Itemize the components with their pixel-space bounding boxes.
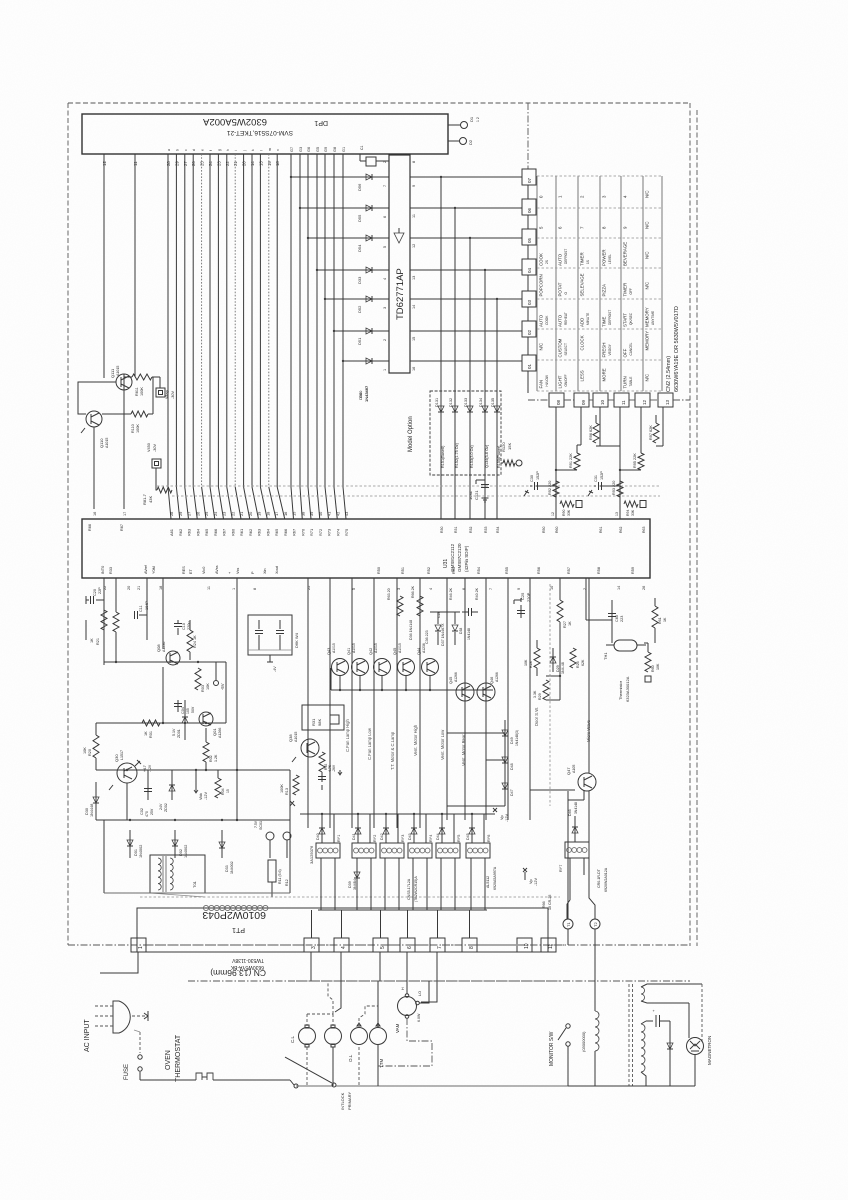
svg-text:h: h (226, 149, 230, 151)
key cell r1c2 (558, 195, 563, 198)
svg-text:R94: R94 (626, 510, 630, 516)
svg-text:7: 7 (437, 946, 443, 949)
transistor Q38 A1015 (288, 732, 319, 762)
wire PT1 pin4 down (335, 952, 341, 1012)
svg-text:(03000000): (03000000) (581, 1031, 586, 1052)
PT1 pin 3 (304, 938, 319, 952)
svg-text:6: 6 (407, 946, 413, 949)
resistor R130 (360, 145, 389, 166)
svg-text:Vlc0: Vlc0 (202, 567, 206, 574)
svg-text:C30: C30 (530, 475, 534, 482)
svg-text:FRESH: FRESH (602, 343, 607, 358)
wire to MCU pin17 (123, 374, 125, 390)
diode D40 and relay RY1 (316, 813, 341, 910)
PT1 pin 8 (462, 938, 477, 952)
svg-text:6323A30012A: 6323A30012A (625, 676, 630, 702)
svg-text:e: e (201, 149, 205, 151)
svg-text:R97 62K: R97 62K (649, 425, 653, 440)
transistor Q01 A1266 (199, 712, 222, 738)
svg-text:R66: R66 (213, 529, 218, 536)
svg-text:10K: 10K (206, 683, 210, 690)
svg-text:7.5V: 7.5V (254, 820, 258, 828)
svg-text:R74: R74 (335, 528, 340, 536)
svg-text:103Z: 103Z (468, 490, 473, 500)
key cell r1c6 (645, 190, 650, 198)
svg-text:15K: 15K (507, 443, 512, 450)
wire PT1 pin6 down (406, 952, 408, 981)
svg-text:A1015: A1015 (116, 366, 120, 376)
svg-text:T.T. Motor & C.Lamp: T.T. Motor & C.Lamp (390, 731, 395, 770)
capacitor C31 152P (588, 471, 620, 496)
resistor R04 (215, 770, 230, 798)
svg-text:R13: R13 (285, 788, 289, 795)
display connector DP1 6302W5A002A (82, 114, 448, 154)
svg-text:D1: D1 (469, 116, 474, 122)
svg-text:G6: G6 (307, 147, 311, 152)
svg-text:LESS: LESS (580, 370, 585, 381)
svg-text:A1266: A1266 (454, 672, 458, 682)
diode D46 1N4148 (568, 802, 578, 842)
svg-text:7: 7 (383, 185, 387, 187)
connector PT1 6010W2P043 (137, 905, 548, 952)
svg-text:D01: D01 (134, 849, 138, 856)
svg-text:1K: 1K (144, 731, 148, 736)
svg-text:ON/OFF: ON/OFF (564, 374, 568, 386)
svg-text:25: 25 (204, 512, 209, 516)
svg-text:28: 28 (169, 512, 174, 516)
bias parts row (387, 585, 479, 646)
svg-text:N/C: N/C (645, 282, 650, 290)
svg-text:Vp: Vp (529, 879, 533, 884)
key scan line 12 (640, 407, 642, 445)
svg-text:C02: C02 (140, 808, 144, 815)
svg-text:AL5112: AL5112 (486, 876, 490, 888)
svg-text:04: 04 (527, 267, 532, 273)
svg-text:152P: 152P (536, 471, 540, 480)
svg-text:22: 22 (230, 512, 235, 516)
wire plug to fuse (134, 1030, 140, 1053)
resistor R11 5.6ohm (268, 860, 289, 897)
terminal D1 (448, 116, 480, 128)
diode D44 and relay RY5 (436, 813, 461, 910)
svg-text:CR0-1R-DT: CR0-1R-DT (597, 868, 601, 888)
svg-text:D38: D38 (459, 628, 463, 634)
PT1 pin 1 (131, 938, 146, 952)
svg-text:10K: 10K (83, 747, 87, 754)
key scan line 10 (600, 445, 620, 447)
relay bank labels (309, 845, 497, 902)
svg-text:1K: 1K (663, 617, 667, 622)
svg-text:Vent. Motor Low: Vent. Motor Low (440, 729, 445, 760)
key cell r6c2 (558, 338, 569, 357)
svg-text:SELECT: SELECT (564, 343, 568, 355)
svg-text:g: g (217, 149, 221, 151)
diode D45 and relay RY6 (466, 813, 491, 910)
svg-text:R93 220: R93 220 (612, 481, 616, 495)
resistor R24 1K (187, 620, 197, 660)
svg-text:25: 25 (200, 161, 205, 166)
key cell r3c1 (539, 253, 550, 266)
svg-text:16: 16 (283, 512, 288, 516)
svg-text:CN2 (2.54mm): CN2 (2.54mm) (666, 356, 672, 392)
svg-text:R28: R28 (529, 661, 533, 668)
svg-text:R33: R33 (109, 567, 113, 574)
svg-text:Vp: Vp (500, 815, 504, 820)
svg-text:TW530-1138V: TW530-1138V (231, 957, 264, 963)
svg-text:D40: D40 (316, 833, 320, 840)
svg-text:CN (13.96mm): CN (13.96mm) (210, 968, 266, 978)
svg-text:DEFROST: DEFROST (564, 249, 568, 264)
PT1 pin 6 (400, 938, 415, 952)
svg-text:POPCORN: POPCORN (539, 274, 544, 296)
svg-text:N/C: N/C (539, 343, 544, 351)
key cell r4c4 (602, 284, 607, 297)
svg-text:13: 13 (665, 399, 670, 405)
key cell r6c6 (645, 331, 650, 351)
svg-text:D45: D45 (466, 833, 470, 840)
svg-text:C.Fan Lamp Low: C.Fan Lamp Low (367, 727, 372, 760)
key cell r3c4 (602, 249, 613, 266)
svg-text:17: 17 (274, 512, 279, 516)
svg-text:A1015: A1015 (352, 643, 356, 653)
connector CN2 labels (666, 306, 680, 392)
capacitor C11 104P (135, 578, 150, 640)
svg-text:43K: 43K (148, 496, 153, 503)
svg-text:T1: T1 (566, 922, 571, 927)
svg-text:1N4002: 1N4002 (184, 845, 188, 858)
svg-text:C.L: C.L (290, 1036, 295, 1044)
svg-text:G9: G9 (324, 147, 328, 152)
svg-text:C20: C20 (93, 589, 97, 596)
svg-text:6920W2A012A: 6920W2A012A (604, 867, 608, 892)
motor O.L (348, 1006, 378, 1086)
svg-text:C04: C04 (181, 707, 185, 714)
svg-text:5: 5 (352, 588, 356, 590)
svg-text:8: 8 (412, 161, 416, 163)
svg-text:j: j (243, 150, 247, 152)
key cell r2c3 (580, 226, 585, 229)
svg-text:R32: R32 (469, 527, 473, 533)
svg-text:PRIMARY: PRIMARY (347, 1092, 352, 1110)
key cell r7c5 (623, 376, 634, 388)
svg-text:R66 2K: R66 2K (411, 585, 415, 598)
diode D39 3N4B4 (348, 872, 360, 890)
diode D80 1N43467 (358, 385, 369, 402)
wire driver columns (308, 578, 530, 828)
transistor Q44 (417, 643, 439, 675)
svg-text:D42: D42 (380, 833, 384, 840)
diode D56 (357, 174, 372, 191)
svg-text:R62: R62 (619, 527, 623, 533)
diode D30 1N4448 (85, 782, 99, 820)
svg-text:R53: R53 (452, 567, 456, 574)
fold line (188, 980, 690, 982)
svg-text:G3: G3 (299, 147, 303, 152)
resistor R94 33K (624, 501, 646, 517)
svg-text:R64: R64 (265, 528, 270, 536)
key cell r2c2 (558, 226, 563, 229)
svg-text:L1517: L1517 (120, 750, 124, 760)
svg-text:(42Pin SDIP): (42Pin SDIP) (464, 545, 469, 572)
svg-text:PT1: PT1 (232, 926, 245, 933)
key matrix connector CN2 (522, 103, 536, 393)
svg-text:T2: T2 (593, 922, 598, 927)
model option diode D134 (479, 391, 489, 519)
svg-text:R63: R63 (642, 527, 646, 533)
svg-text:-30V: -30V (153, 444, 157, 452)
svg-text:R62: R62 (248, 529, 253, 536)
emitter rail (331, 668, 493, 691)
PT1 pin 5 (373, 938, 388, 952)
transistor Q46 A1266 (477, 672, 499, 701)
key cell r2c6 (645, 221, 650, 229)
svg-text:Q30: Q30 (114, 754, 119, 762)
key matrix grid (537, 176, 662, 391)
motor C.L b (307, 981, 342, 1086)
diode D47 (447, 783, 514, 806)
svg-text:12: 12 (642, 399, 647, 405)
svg-text:n: n (276, 149, 280, 151)
svg-text:1N4-48: 1N4-48 (561, 662, 565, 674)
svg-text:8: 8 (253, 588, 257, 590)
svg-text:R50: R50 (542, 527, 546, 533)
svg-text:d: d (192, 149, 196, 151)
magnetron bottom wire (568, 1085, 695, 1087)
svg-text:TTM: TTM (379, 1059, 384, 1068)
svg-text:11: 11 (207, 586, 211, 590)
svg-text:R59: R59 (631, 567, 635, 574)
svg-text:03: 03 (527, 299, 532, 305)
svg-text:R54: R54 (477, 567, 481, 574)
svg-text:19: 19 (267, 161, 272, 166)
key cell r7c4 (602, 368, 607, 381)
key cell r1c1 (539, 195, 544, 198)
svg-text:D37 1N4467X: D37 1N4467X (441, 623, 445, 646)
svg-text:FUSE: FUSE (124, 1064, 130, 1080)
svg-text:LO: LO (418, 991, 422, 996)
svg-text:Q08: Q08 (156, 644, 161, 652)
svg-text:1N4148: 1N4148 (467, 628, 471, 640)
svg-text:Q46: Q46 (490, 677, 494, 684)
svg-text:-12V: -12V (505, 814, 509, 822)
svg-text:D29: D29 (556, 665, 560, 672)
key matrix connector CN2 bottom row (528, 393, 690, 407)
svg-text:R67: R67 (292, 529, 297, 536)
svg-text:R33: R33 (484, 527, 488, 533)
svg-text:12: 12 (551, 512, 555, 516)
capacitor C20 22P (86, 578, 104, 648)
transistor Q110 A1015 (81, 411, 109, 448)
svg-text:SC01: SC01 (259, 821, 263, 830)
svg-text:C60: C60 (615, 615, 619, 622)
svg-text:2: 2 (383, 339, 387, 341)
magnetron (687, 1036, 713, 1086)
svg-text:A1015: A1015 (374, 643, 378, 653)
rectifier diode D01 1N4002 (127, 830, 143, 858)
key cell r3c6 (645, 251, 650, 259)
key cell r2c1 (539, 226, 544, 229)
svg-text:470: 470 (145, 811, 149, 817)
capacitor C10 220u (163, 578, 191, 640)
svg-text:1 2: 1 2 (476, 117, 480, 122)
svg-text:R70: R70 (300, 528, 305, 536)
svg-text:RY2: RY2 (373, 835, 377, 842)
diode D50 label (358, 385, 369, 402)
diode D33 1N4002 (219, 830, 234, 874)
svg-text:TIMER: TIMER (580, 252, 585, 266)
svg-text:POWER: POWER (602, 249, 607, 266)
svg-text:RES: RES (182, 566, 186, 574)
svg-text:16: 16 (412, 367, 416, 371)
transistor Q43 (327, 643, 349, 675)
diode D41 and relay RY2 (352, 813, 377, 910)
DC-DC converter block D6KW (248, 615, 299, 672)
svg-text:Xout: Xout (275, 565, 279, 574)
diode D54 (357, 235, 372, 252)
svg-text:RY4: RY4 (429, 835, 433, 842)
svg-text:SELEVAGE: SELEVAGE (580, 273, 585, 296)
svg-text:TH1: TH1 (603, 652, 608, 660)
svg-text:105: 105 (186, 708, 190, 714)
resistor network RN31 98K (302, 705, 344, 730)
svg-text:b: b (175, 149, 179, 151)
svg-text:Q134(3-6 Oz): Q134(3-6 Oz) (485, 444, 489, 468)
svg-text:R63 20: R63 20 (387, 588, 391, 600)
key cell r1c3 (580, 195, 585, 198)
model option diode D131 (435, 391, 445, 519)
svg-text:27: 27 (187, 512, 192, 516)
wires DP1 grid pins to driver (290, 176, 389, 362)
svg-text:C11: C11 (139, 605, 143, 612)
svg-text:Model Option: Model Option (408, 416, 414, 452)
svg-text:QK/SEC: QK/SEC (629, 312, 633, 325)
svg-text:R29: R29 (538, 693, 542, 700)
transistor Q111 A1015 (110, 366, 132, 390)
PT1 pin 11 (541, 938, 556, 952)
resistor R29 3.3K (533, 680, 549, 700)
svg-text:10: 10 (600, 399, 605, 405)
relay supply rail (300, 808, 509, 822)
OVEN THERMOSTAT label (165, 1034, 182, 1082)
svg-text:11: 11 (412, 214, 416, 218)
svg-text:R46 2K: R46 2K (449, 587, 453, 600)
key cell r2c4 (602, 226, 607, 229)
svg-text:3.3K: 3.3K (533, 690, 537, 698)
key cell r3c5 (623, 242, 628, 266)
supply Vp -12V b (523, 868, 538, 886)
svg-text:A105: A105 (572, 765, 576, 773)
svg-text:01: 01 (527, 363, 532, 369)
svg-text:R66: R66 (88, 524, 92, 531)
svg-text:D55: D55 (357, 214, 362, 222)
svg-text:100K: 100K (140, 387, 144, 396)
svg-text:R65: R65 (204, 529, 209, 536)
svg-text:D80: D80 (358, 390, 363, 398)
svg-text:R01: R01 (149, 731, 153, 738)
HV diode D (667, 1021, 673, 1086)
svg-text:6920A5A997A: 6920A5A997A (493, 866, 497, 890)
ground arrow (132, 1011, 148, 1021)
svg-text:Q44: Q44 (417, 648, 421, 655)
voltage source V450 -30V (147, 443, 161, 490)
wire PT1 pin7 down (421, 952, 437, 1002)
svg-text:N/C: N/C (645, 221, 650, 229)
svg-text:3: 3 (383, 307, 387, 309)
svg-text:1N4002: 1N4002 (230, 861, 234, 874)
svg-text:2S: 2S (545, 260, 549, 264)
model option diode D133 (464, 391, 474, 519)
svg-text:12: 12 (412, 244, 416, 248)
key cell r4c5 (623, 283, 634, 297)
zener ZD01 5.1V (172, 700, 188, 740)
svg-text:R31: R31 (454, 527, 458, 533)
svg-text:D2: D2 (468, 139, 473, 145)
PT1 pin 10 (517, 938, 532, 952)
svg-text:10K: 10K (656, 663, 660, 670)
svg-text:COOK: COOK (545, 315, 549, 325)
svg-text:19: 19 (257, 512, 262, 516)
svg-text:09: 09 (581, 399, 586, 405)
svg-text:-12V: -12V (148, 764, 152, 772)
svg-text:41: 41 (327, 512, 332, 516)
capacitor C25 220P (514, 592, 531, 618)
svg-text:R95 22K: R95 22K (633, 453, 637, 468)
transistor Q30 L1517 (109, 750, 152, 790)
svg-text:R61: R61 (599, 527, 603, 533)
svg-text:11: 11 (621, 400, 626, 405)
svg-text:AUTO: AUTO (558, 314, 563, 327)
key cell r5c3 (580, 313, 591, 327)
key cell r3c3 (580, 252, 591, 266)
svg-text:05: 05 (527, 237, 532, 243)
key cell r4c3 (580, 273, 585, 296)
main bottom wire (296, 1085, 568, 1087)
svg-text:MAGNETRON: MAGNETRON (707, 1036, 712, 1065)
svg-text:A1015: A1015 (332, 643, 336, 653)
svg-text:08: 08 (556, 399, 561, 405)
svg-text:-4V: -4V (273, 666, 277, 672)
monitor switch (558, 1024, 570, 1086)
svg-text:D133: D133 (464, 398, 468, 407)
connector CN label (210, 957, 266, 978)
svg-text:k: k (251, 149, 255, 151)
svg-text:15: 15 (226, 789, 230, 793)
resistor R27 1K (557, 578, 572, 628)
svg-text:INTLOCK: INTLOCK (340, 1092, 345, 1110)
svg-text:C1: C1 (360, 145, 364, 150)
svg-text:D39: D39 (348, 881, 352, 888)
svg-text:INT0: INT0 (101, 566, 105, 574)
svg-text:R62: R62 (178, 529, 183, 536)
display bus wires (104, 154, 346, 519)
svg-text:24V: 24V (159, 803, 163, 810)
svg-text:R60: R60 (230, 528, 235, 536)
key cell r5c6 (645, 307, 656, 327)
svg-text:R34: R34 (496, 527, 500, 533)
svg-text:Thermistor: Thermistor (618, 680, 623, 700)
svg-text:R31: R31 (311, 718, 316, 726)
svg-text:R66: R66 (542, 901, 546, 908)
svg-text:OVEN: OVEN (165, 1050, 172, 1070)
motor VAM (378, 981, 432, 1066)
DP1 pin numbers (102, 147, 346, 166)
resistor R611 100K (124, 374, 152, 396)
svg-text:D49: D49 (510, 737, 514, 744)
svg-text:-30V: -30V (171, 391, 175, 399)
svg-text:39: 39 (309, 512, 314, 516)
PT1 pin 7 (430, 938, 445, 952)
svg-text:1N4448: 1N4448 (90, 804, 94, 817)
